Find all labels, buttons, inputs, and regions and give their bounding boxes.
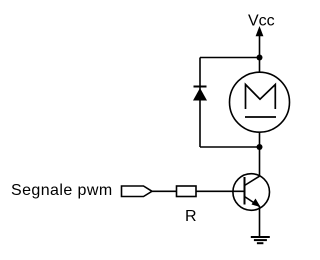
resistor R [177,186,197,197]
node junction bottom [257,144,263,150]
wire bottom junction to diode branch [200,146,260,148]
Vcc supply arrow [256,26,264,36]
node junction top [257,55,263,61]
svg-text:Segnale pwm: Segnale pwm [11,182,113,199]
wire emitter to ground [259,206,261,237]
motor M1 [230,72,290,132]
svg-text:Vcc: Vcc [248,13,275,30]
wire diode branch vertical [199,58,201,148]
ground [251,237,270,243]
wire motor top [259,58,261,73]
wire connector to resistor [152,190,177,192]
svg-text:R: R [185,208,197,225]
wire resistor to base [196,190,245,192]
diode D1 (flyback) [193,87,207,101]
wire Vcc arrow to top junction [259,31,261,58]
transistor Q1 (NPN) [233,174,270,211]
wire collector [259,147,261,177]
input connector (signal tag) [122,186,153,197]
wire top junction to diode branch [200,57,260,59]
wire motor bottom [259,132,261,147]
